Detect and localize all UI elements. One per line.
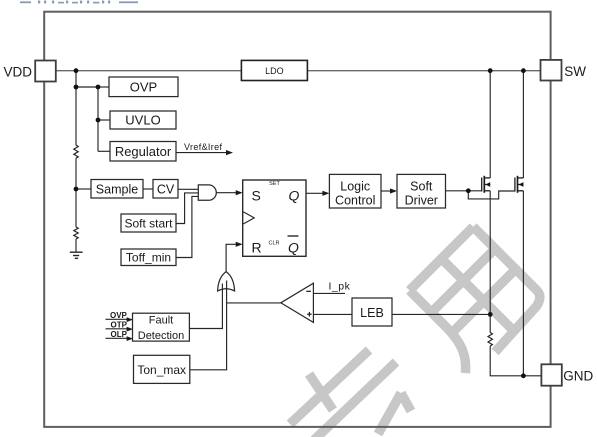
Ton_max block	[134, 355, 190, 383]
Fault Detection block	[133, 313, 190, 342]
Vref&Iref output wire	[176, 142, 233, 155]
svg-text:GND: GND	[563, 369, 593, 384]
svg-text:Fault: Fault	[149, 315, 173, 327]
wire LEB to comparator	[313, 313, 352, 315]
ground	[70, 252, 83, 258]
Sample block	[91, 180, 143, 199]
transistor Q2 nmos right	[515, 176, 524, 193]
VDD-SW top rail	[56, 70, 541, 72]
OVP block	[109, 77, 178, 97]
svg-text:Q: Q	[288, 239, 299, 255]
UVLO block	[110, 111, 176, 129]
svg-text:OVP: OVP	[130, 79, 157, 94]
wire to Regulator	[98, 150, 110, 152]
wire between divider resistors	[75, 158, 77, 227]
SR latch U-SR	[243, 180, 306, 256]
svg-text:Sample: Sample	[96, 182, 138, 196]
wire or output to R with arrow	[226, 242, 243, 272]
clipped heading text top-left	[20, 1, 138, 4]
svg-text:Detection: Detection	[138, 330, 184, 342]
resistor R3 sense	[488, 333, 492, 347]
pin VDD	[4, 61, 56, 82]
label OTP input	[106, 321, 134, 332]
svg-text:Driver: Driver	[405, 194, 438, 208]
label OVP input	[106, 311, 134, 322]
svg-text:Ton_max: Ton_max	[137, 363, 186, 377]
resistor R2 divider bottom	[74, 227, 78, 239]
Soft Driver block	[397, 174, 446, 208]
wire and-S with arrow	[216, 190, 242, 195]
node OVP junction	[96, 85, 101, 90]
clock triangle	[243, 212, 254, 224]
wire Q2 drain up	[522, 71, 524, 178]
svg-text:Soft: Soft	[410, 180, 433, 194]
wire to OVP	[98, 86, 109, 88]
watermark 专用	[290, 227, 547, 437]
wire sense to LEB	[392, 313, 490, 315]
svg-text:Vref&Iref: Vref&Iref	[184, 142, 222, 152]
wire driver to gates	[446, 191, 515, 199]
CV block	[153, 180, 178, 199]
svg-text:Regulator: Regulator	[115, 144, 172, 159]
svg-text:SW: SW	[564, 64, 586, 79]
svg-text:I_pk: I_pk	[329, 281, 351, 293]
svg-text:LEB: LEB	[360, 306, 384, 320]
pin GND	[541, 364, 593, 385]
wire comparator output	[227, 302, 282, 304]
Toff_min block	[121, 249, 176, 266]
svg-text:Toff_min: Toff_min	[126, 251, 171, 265]
svg-text:Logic: Logic	[340, 180, 370, 194]
wire to UVLO	[98, 119, 110, 121]
Logic Control block	[329, 174, 381, 208]
node sample tap	[74, 187, 79, 192]
Soft start block	[121, 214, 176, 232]
wire sample tap	[76, 188, 91, 190]
node VDD junction	[74, 68, 79, 73]
wire sense resistor to gnd rail	[490, 346, 541, 376]
and gate U-AND	[198, 185, 216, 200]
node UVLO junction	[96, 118, 101, 123]
pin SW	[541, 60, 587, 81]
LDO U-LDO	[241, 60, 307, 80]
comparator U-CMP	[281, 283, 314, 322]
wire branch to x98	[76, 86, 98, 88]
wire x98 vertical	[97, 87, 99, 151]
wire tonmax to or	[190, 281, 227, 370]
node sense junction	[488, 312, 493, 317]
LEB block	[352, 298, 392, 326]
node rail-Q2	[521, 68, 526, 73]
wire cv-and	[178, 188, 199, 190]
label OLP input	[106, 330, 134, 341]
svg-text:LDO: LDO	[265, 66, 284, 76]
resistor R1 divider top	[74, 145, 78, 158]
or gate U-OR	[218, 272, 235, 291]
svg-text:Control: Control	[335, 194, 375, 208]
wire toffmin-and	[176, 196, 199, 257]
svg-text:SET: SET	[269, 181, 280, 187]
wire logic-driver with arrow	[381, 188, 397, 193]
svg-text:Q: Q	[289, 188, 300, 204]
svg-text:CV: CV	[157, 182, 175, 196]
wires: VDD sense branch	[76, 71, 110, 252]
wire softstart-and	[176, 193, 199, 224]
svg-text:UVLO: UVLO	[125, 113, 160, 128]
svg-text:VDD: VDD	[4, 64, 33, 79]
wire sample-cv	[143, 188, 153, 190]
node branch junction	[74, 85, 79, 90]
wire fault to or	[189, 284, 222, 329]
node gnd junction	[521, 373, 526, 378]
node gate junction	[466, 188, 471, 193]
Regulator block	[110, 142, 176, 162]
wire Q2 source down	[522, 191, 524, 376]
wire Q1 source down	[489, 191, 491, 333]
svg-text:Soft start: Soft start	[124, 217, 173, 231]
node rail-Q1	[488, 68, 493, 73]
wire I_pk stub	[313, 281, 350, 294]
wire Q1 drain up	[489, 71, 491, 178]
svg-text:CLR: CLR	[269, 241, 280, 247]
wire Q-logic with arrow	[306, 191, 329, 196]
wire vdd vertical	[75, 71, 77, 146]
wire resistor2 to ground	[75, 239, 77, 252]
svg-text:R: R	[252, 240, 262, 256]
svg-text:S: S	[252, 188, 261, 204]
transistor Q1 nmos left	[482, 176, 491, 193]
